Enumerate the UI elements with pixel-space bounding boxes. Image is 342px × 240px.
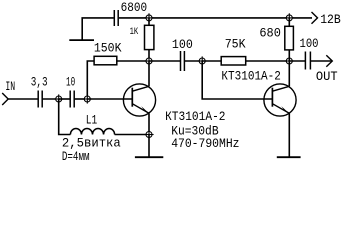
ground (VT1 emitter)	[135, 156, 163, 158]
wire: R3 to node E	[246, 60, 290, 62]
wire: node D to R3	[202, 60, 221, 62]
wire: node H to ground	[148, 135, 150, 158]
capacitor C2a plates (3,3)	[38, 91, 42, 108]
capacitor C5 plates (output 100)	[305, 52, 310, 70]
svg-text:3,3: 3,3	[31, 74, 48, 89]
svg-text:100: 100	[300, 36, 319, 51]
capacitor C3 plates (interstage 100)	[181, 51, 185, 71]
svg-text:IN: IN	[5, 79, 15, 94]
arrow: IN	[2, 93, 8, 105]
svg-text:75K: 75K	[225, 37, 246, 52]
transistor VT1 emitter arrow	[141, 106, 149, 113]
wire: C5 to OUT arrow	[310, 60, 332, 62]
svg-text:150K: 150K	[94, 41, 122, 56]
wire: VT2 emitter to ground	[288, 113, 290, 157]
wire: node D down and right to VT2 base	[202, 61, 272, 99]
node E: junction R4 bottom / VT2 collector / C5	[285, 56, 294, 65]
transistor VT2 body circle	[264, 84, 296, 116]
transistor VT1 body circle	[123, 84, 155, 116]
node G: junction R2 bias / VT1 base	[83, 94, 92, 103]
wire: node G to VT1 base	[87, 98, 132, 100]
wire: R4 bottom to node E	[288, 50, 290, 61]
svg-text:6800: 6800	[121, 0, 148, 15]
arrow: OUT	[326, 55, 332, 67]
transistor VT2 base bar	[271, 88, 273, 107]
svg-text:КТ3101А-2: КТ3101А-2	[221, 69, 281, 84]
wire: VT2 collector to node E	[288, 61, 290, 86]
wire: R1 bottom to node C	[148, 50, 150, 61]
resistor R1 1K body	[145, 25, 154, 49]
wire: IN to C2a	[8, 98, 38, 100]
wire: R1 top to node A	[148, 18, 150, 25]
node H: junction L1 / VT1 emitter / ground	[144, 130, 153, 139]
capacitor C2b plates (10)	[70, 91, 74, 108]
wire: R2 right to node C	[117, 60, 149, 62]
wire: VT1 emitter down to node H	[148, 113, 150, 134]
wire: node E to C5	[289, 60, 305, 62]
arrow: +12V supply	[312, 12, 318, 24]
wire: top rail left segment (ground drop to C1)	[82, 18, 113, 40]
svg-text:680: 680	[259, 25, 281, 40]
transistor VT2 collector diagonal	[272, 86, 289, 91]
transistor VT1 base bar	[131, 88, 133, 107]
wire: L1 to node H	[115, 134, 149, 136]
resistor R4 680 body	[285, 26, 294, 50]
node F: junction input line / L1 drop	[54, 94, 63, 103]
wire: C2a to node F	[42, 98, 59, 100]
wire: middle rail from R2 corner down to node G	[87, 61, 94, 99]
svg-text:L1: L1	[86, 113, 98, 128]
node A: junction R1 top / +12V rail	[144, 13, 153, 22]
svg-text:КТ3101А-2: КТ3101А-2	[165, 109, 225, 124]
wire: node F down and right to L1	[59, 99, 71, 135]
node C: junction R1/R2/C3/VT1 collector	[144, 56, 153, 65]
resistor R3 75K body	[221, 57, 246, 65]
wire: C2b to node G	[74, 98, 87, 100]
ground (VT2 emitter)	[277, 156, 301, 158]
ground (top-left, decoupling cap return)	[69, 39, 94, 41]
wire: R4 top to node B	[288, 18, 290, 26]
wire: top rail C1 to +12V arrow	[119, 17, 312, 19]
transistor VT2 emitter arrow	[281, 106, 289, 113]
transistor VT2 emitter diagonal	[272, 104, 289, 114]
transistor VT1 collector diagonal	[132, 86, 149, 91]
svg-text:1K: 1K	[130, 26, 139, 38]
wire: node C to C3	[149, 60, 181, 62]
svg-text:10: 10	[66, 74, 75, 89]
inductor L1 humps	[70, 128, 114, 134]
svg-text:12В: 12В	[320, 12, 341, 27]
node D: junction C3/R3/VT2 base feed	[198, 56, 207, 65]
svg-text:470-790MHz: 470-790MHz	[171, 136, 239, 151]
svg-text:OUT: OUT	[316, 69, 338, 84]
resistor R2 150K body	[94, 56, 117, 65]
capacitor C1 plates	[114, 10, 118, 26]
node B: junction R4 top / +12V rail	[285, 13, 294, 22]
svg-text:D=4мм: D=4мм	[62, 149, 90, 162]
wire: C3 to node D	[184, 60, 202, 62]
wire: node F to C2b	[59, 98, 70, 100]
transistor VT1 emitter diagonal	[132, 104, 149, 114]
svg-text:100: 100	[172, 37, 193, 52]
wire: VT1 collector to node C	[148, 61, 150, 86]
